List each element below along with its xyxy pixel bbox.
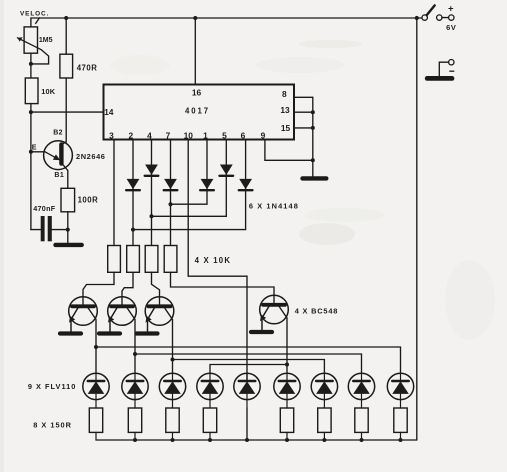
node: top rail junction to 470R [64, 16, 68, 20]
wire: 10Kb to T2 base [122, 272, 133, 304]
label leader VELOC tick [36, 18, 40, 24]
LED D4 FLV110 [197, 373, 223, 408]
wire: pin 15 stub [294, 127, 313, 129]
wire: pin 13 stub [294, 111, 313, 113]
wire: pin 9 down and right [265, 140, 313, 161]
resistor R150c body [166, 408, 179, 440]
wire: pin 8 stub [294, 96, 313, 98]
wire: bottom common rail [96, 439, 417, 441]
wire: pin 5 line joining pin 4 [152, 140, 227, 217]
wire: pot bottom to 10K [30, 53, 32, 78]
diode D3 1N4148 on pin7 line [164, 179, 178, 190]
wire: 10Kc to T3 base [152, 272, 160, 304]
svg-text:2N2646: 2N2646 [76, 152, 106, 161]
svg-text:13: 13 [280, 105, 290, 115]
wire: pins 8-13-15 vertical to ground [312, 97, 314, 176]
wire: bus 3 T3 to LED7 [173, 360, 325, 374]
potentiometer P1 1M5 body [24, 27, 37, 53]
wire: bus1 drop to LED1 [95, 347, 97, 373]
wire: pin 10 line to LED D5 [188, 140, 247, 382]
LED D3 FLV110 [159, 373, 185, 408]
ground for IC [303, 176, 327, 180]
svg-text:15: 15 [281, 123, 291, 133]
wire: bus2 drop to LED2 [134, 354, 136, 373]
wire: bus3 drop to LED3 [172, 360, 174, 374]
svg-text:1: 1 [203, 130, 208, 140]
LED D6 FLV110 [274, 373, 300, 408]
wire: pin 7 line [170, 140, 172, 246]
node: pin9 junction [311, 158, 315, 162]
resistor R10Kd body [164, 246, 177, 273]
svg-text:6 X 1N4148: 6 X 1N4148 [249, 202, 299, 211]
transistor Q1 emitter arrow [45, 152, 55, 158]
transistor T2 BC548 [99, 297, 136, 334]
node: pin1/pin7 junction [169, 202, 173, 206]
wire: bus 1 T1 to LED9 [96, 347, 401, 373]
node: top rail junction to pin16 [193, 16, 197, 20]
resistor R150h body [394, 408, 407, 440]
wire: 10K bottom down to capacitor node [30, 104, 32, 230]
node: pin5/pin4 junction [150, 214, 154, 218]
svg-text:9: 9 [261, 130, 266, 140]
wire: Q1 base1 to 100R [61, 163, 67, 189]
wire: pin 3 line to 10K a [113, 140, 115, 246]
LED D9 FLV110 [387, 373, 413, 408]
LED D8 FLV110 [348, 373, 374, 408]
resistor 100R body [61, 188, 75, 212]
wire: T1 collector to bus 1 [88, 308, 96, 347]
battery minus terminal [449, 60, 454, 65]
svg-text:5: 5 [222, 130, 227, 140]
wire: 10Ka to T1 base [83, 272, 114, 304]
ground under 100R [56, 243, 82, 247]
resistor R150b body [128, 408, 141, 440]
wire: pin 1 line joining pin 7 [171, 140, 208, 205]
wire: 470R from rail [65, 18, 67, 54]
resistor 10K body [25, 78, 38, 104]
svg-text:E: E [32, 144, 37, 151]
wire: pin 4 line [151, 140, 153, 246]
svg-text:7: 7 [166, 130, 171, 140]
LED D7 FLV110 [311, 373, 337, 408]
LED D5 FLV110 [234, 373, 260, 408]
svg-text:10K: 10K [41, 87, 56, 96]
svg-text:8: 8 [282, 89, 287, 99]
transistor Q1 2N2646 circle [44, 141, 73, 170]
node: pin13 junction [311, 110, 315, 114]
diode D6 1N4148 on pin6 line [239, 179, 253, 190]
node: bus3 junction [171, 358, 175, 362]
label battery minus [449, 70, 454, 72]
node: top rail junction to right rail [415, 16, 419, 20]
resistor R10Kc body [145, 246, 158, 273]
svg-text:14: 14 [104, 108, 114, 117]
wire: emitter lead of Q1 [31, 151, 45, 153]
transistor Q1 base bar [59, 144, 63, 163]
LED D2 FLV110 [122, 373, 148, 408]
node: rail dot c9 [399, 438, 403, 442]
svg-text:470nF: 470nF [33, 204, 56, 213]
switch S1 [422, 15, 427, 20]
op IC U1 4017 body [104, 85, 295, 140]
svg-text:VELOC.: VELOC. [20, 10, 49, 17]
node: rail dot c4 [208, 438, 212, 442]
resistor R150g body [355, 408, 368, 440]
diode D1 1N4148 on pin2 line [126, 179, 140, 190]
resistor R150f body [318, 408, 331, 440]
svg-text:470R: 470R [77, 63, 98, 72]
diode D5 1N4148 on pin5 line [220, 165, 234, 176]
node: rail dot c8 [360, 438, 364, 442]
diode D2 1N4148 on pin4 line [145, 165, 159, 176]
svg-text:3: 3 [109, 130, 114, 140]
node: bus4 T4 junction [285, 363, 289, 367]
resistor R10Ka body [108, 246, 121, 273]
LED D1 FLV110 [83, 373, 109, 408]
resistor 470R body [60, 54, 73, 78]
node: rail dot c7 [322, 438, 326, 442]
svg-text:4017: 4017 [185, 106, 210, 115]
wire: LED5 cathode direct to bottom rail [246, 408, 248, 440]
node: bus2 junction [133, 352, 137, 356]
svg-text:9 X FLV110: 9 X FLV110 [28, 382, 76, 391]
wire: pin 2 line [132, 140, 134, 246]
node: bus1 junction [94, 345, 98, 349]
svg-text:+: + [448, 4, 454, 15]
node: pin6/pin2 junction [131, 228, 135, 232]
potentiometer P1 wiper return wire [31, 50, 49, 64]
node: rail dot c6 [285, 438, 289, 442]
svg-text:4: 4 [147, 130, 152, 140]
node: cap / 100R / ground junction [66, 228, 70, 232]
wire: bus 4 LED4 to LED6 [210, 365, 287, 374]
transistor T1 BC548 [60, 297, 97, 334]
capacitor C1 470nF plates [41, 216, 45, 241]
node: rail dot c3 [171, 438, 175, 442]
node: rail dot c2 [133, 438, 137, 442]
svg-text:4 X BC548: 4 X BC548 [295, 307, 338, 316]
diode D4 1N4148 on pin1 line [200, 179, 214, 190]
ground chassis bar at battery [427, 76, 452, 81]
svg-text:B2: B2 [53, 130, 63, 137]
wire: 10Kd to T4 base [171, 272, 275, 303]
wire: pin 16 to rail [194, 18, 196, 85]
svg-text:4 X 10K: 4 X 10K [195, 256, 232, 265]
battery plus terminal [437, 15, 442, 20]
svg-text:2: 2 [128, 130, 133, 140]
node: RC junction to pin 14 [29, 110, 33, 114]
svg-text:16: 16 [192, 87, 202, 97]
wire: pin 6 line joining pin 2 [133, 140, 246, 230]
wire: RC node to pin 14 of 4017 [31, 111, 104, 113]
wire: bus 2 T2 to LED8 [135, 354, 362, 373]
transistor T4 BC548 [251, 295, 288, 332]
svg-text:6V: 6V [446, 23, 456, 32]
wire: +6V top rail [31, 18, 422, 27]
resistor R10Kb body [127, 246, 140, 273]
node: rail dot c5 [245, 438, 249, 442]
svg-text:1M5: 1M5 [39, 37, 53, 44]
wire: capacitor right plate to ground node [52, 229, 68, 231]
node: wiper junction [29, 62, 33, 66]
node: pin15 junction [311, 126, 315, 130]
svg-text:10: 10 [184, 130, 194, 140]
wire: T3 collector to bus 3 [165, 308, 173, 360]
svg-text:6: 6 [241, 130, 246, 140]
resistor R150d body [203, 408, 216, 440]
wire: RC node to capacitor left plate [31, 229, 41, 231]
transistor T3 BC548 [137, 297, 174, 334]
svg-text:B1: B1 [54, 172, 64, 179]
potentiometer P1 wiper arrow [17, 38, 41, 50]
wire: right +6V rail down [416, 18, 418, 440]
resistor R150e body [280, 408, 293, 440]
resistor R150a body [89, 408, 102, 440]
wire: 470R to base2 of Q1 [61, 78, 66, 145]
wire: T2 collector to bus 2 [127, 308, 135, 354]
wire: T4 collector to bus 4 [279, 306, 287, 364]
wire: 100R bottom to ground [67, 212, 69, 243]
svg-text:8 X 150R: 8 X 150R [33, 420, 72, 429]
svg-text:100R: 100R [78, 195, 99, 204]
node: emitter tap [29, 150, 33, 154]
